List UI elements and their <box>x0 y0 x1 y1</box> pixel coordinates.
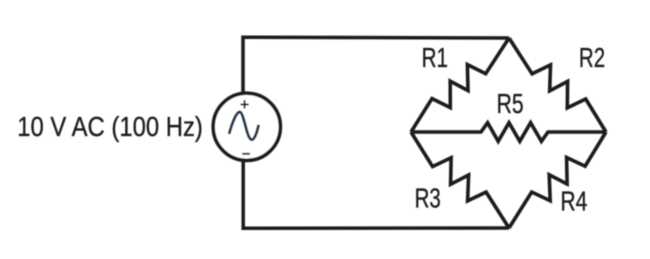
svg-text:R1: R1 <box>422 42 448 73</box>
svg-text:R3: R3 <box>415 182 441 213</box>
resistor R5 <box>411 123 606 142</box>
V1 sine wave symbol <box>229 112 258 140</box>
voltage source V1 circle <box>213 93 280 160</box>
resistor R2 <box>509 38 606 132</box>
resistor R1 <box>411 38 509 132</box>
svg-text:R2: R2 <box>579 42 605 73</box>
resistor R3 <box>411 132 509 228</box>
svg-text:10 V AC (100 Hz): 10 V AC (100 Hz) <box>17 111 203 142</box>
svg-text:R4: R4 <box>560 185 587 216</box>
V1 minus terminal mark <box>242 153 250 155</box>
wire top horizontal <box>243 37 509 93</box>
wire bottom horizontal <box>243 161 509 229</box>
resistor R4 <box>509 132 606 228</box>
V1 plus terminal mark <box>241 100 249 108</box>
svg-text:R5: R5 <box>497 88 524 119</box>
